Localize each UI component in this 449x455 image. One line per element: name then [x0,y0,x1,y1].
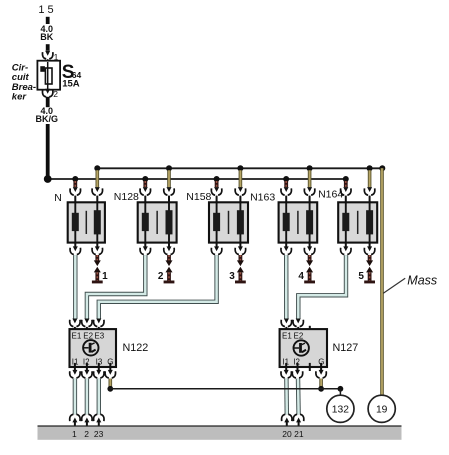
connector N122 G [105,370,115,378]
N127 pin labels I1 I2 G [282,357,324,366]
wire: bus to N pin left [73,181,77,187]
svg-text:2: 2 [158,271,164,282]
thermal element blob of S64 [40,66,45,72]
svg-text:21: 21 [294,429,304,439]
connector at N bottom-right pin [92,243,102,255]
wire: drop to terminal 132 [339,389,341,395]
output stage N122 box [70,329,117,367]
connector at N163 top-left pin [281,187,291,202]
N163 secondary winding [306,202,313,242]
bar pin label 20 [282,429,292,439]
connector at bar pin 1 [70,414,80,426]
connector N127 I1 [281,370,291,378]
connector at N164 top-right pin [364,187,374,202]
output stage N127 box [280,329,327,367]
junction on upper bus (mass branch) [379,165,385,171]
svg-text:1: 1 [102,271,108,282]
junction on lower bus at N158 [214,176,220,182]
ignition coil designator N [54,192,62,204]
svg-text:N128: N128 [114,191,139,203]
svg-text:1: 1 [72,429,77,439]
connector at N164 bottom-right pin [364,243,374,255]
svg-text:N164: N164 [318,188,343,200]
svg-text:23: 23 [94,429,104,439]
N127 electronics symbol [294,340,309,355]
ignition coil N box [68,202,105,242]
wire label 4.0 BK/G [36,106,59,124]
connector at N top-left pin [70,187,80,202]
svg-text:ker: ker [12,91,28,102]
bar pin label 2 [84,429,89,439]
connector at N164 bottom-left pin [341,243,351,255]
junction on upper bus at N163 [307,165,313,171]
svg-text:Mass: Mass [407,273,437,287]
connector at N128 top-right pin [164,187,174,202]
connector N127 E2 [293,319,303,334]
junction N127 G [318,386,324,392]
wire: bus to N158 pin left [215,181,219,187]
svg-text:N122: N122 [123,342,149,354]
ignition coil designator N163 [250,192,275,204]
Circuit Breaker caption [12,63,36,103]
connector at bar pin 20 [282,414,292,426]
N primary winding [72,202,79,242]
junction on upper bus at N128 [166,165,172,171]
wire: N128 high-tension lead [164,255,175,283]
wire: bus to N164 pin right [368,170,372,187]
wire: N127 I2 to bar pin 21 [296,379,301,415]
N127 unused top pin [309,326,311,334]
connector N122 E1 [70,319,80,334]
cylinder number 2 [158,271,164,282]
N secondary winding [94,202,101,242]
N158 core [228,211,230,234]
wire: N122 G lead [109,379,113,389]
N127 pin labels E1 E2 [282,332,304,341]
connector N127 I2 [292,370,302,378]
fuse element of S64 [45,62,52,89]
N158 primary winding [213,202,220,242]
connector N122 E2 [82,319,92,334]
junction on lower bus at N163 [283,176,289,182]
cylinder number 4 [298,271,304,282]
svg-text:E2: E2 [294,332,304,341]
wire: bus to N158 pin right [239,170,243,187]
N163 core [297,211,299,234]
ground/connection bar [38,426,402,440]
wire: coil N164 to N127 E2 [298,255,346,319]
svg-text:2: 2 [53,89,58,99]
wire: coil N158 to N122 E3 [99,255,217,319]
wire: bus to N164 pin left [344,181,348,187]
Mass label [407,273,437,287]
junction on upper bus at N [94,165,100,171]
svg-text:15A: 15A [62,78,80,89]
output stage designator N127 [333,342,359,354]
N128 secondary winding [166,202,173,242]
junction above terminal 132 [338,386,344,392]
N122 bottom pin stubs [75,363,110,371]
connector at N164 top-left pin [341,187,351,202]
svg-text:132: 132 [332,405,349,416]
wire: coil N to N122 E1 [73,255,77,319]
N163 primary winding [283,202,290,242]
ignition coil designator N128 [114,191,139,203]
wire: bus to N pin right [96,170,100,187]
svg-text:N163: N163 [250,192,275,204]
wire: coil N163 to N127 E1 [284,255,288,319]
connector at N158 top-right pin [235,187,245,202]
N164 secondary winding [366,202,373,242]
N128 primary winding [142,202,149,242]
svg-text:19: 19 [376,405,388,416]
junction on upper bus at N158 [237,165,243,171]
bar pin label 1 [72,429,77,439]
terminal 132 circle [327,395,354,422]
ignition coil designator N164 [318,188,343,200]
pin 1 label [54,52,59,62]
wire: breaker output [46,97,50,107]
pin 2 label [53,89,58,99]
N127 bottom pin stubs [286,363,321,371]
ignition coil N164 box [338,202,377,242]
N core [85,211,87,234]
svg-text:5: 5 [358,271,364,282]
N164 core [357,211,359,234]
junction on lower bus at N164 [343,176,349,182]
wire: bus to N163 pin left [284,181,288,187]
connector N122 I3 [94,370,104,378]
connector N127 E1 [281,319,291,334]
connector at N158 bottom-right pin [235,243,245,255]
wire: ground (Mass) run [380,168,384,395]
S64 designator [62,62,82,89]
N122 electronics symbol [83,340,98,355]
N122 pin labels I1 I2 I3 G [72,357,114,366]
svg-text:BK/G: BK/G [36,114,59,124]
wire: N122 I2 to bar pin 2 [85,379,89,415]
connector N122 I2 [82,370,92,378]
cylinder number 3 [229,271,235,282]
svg-text:4: 4 [298,271,304,282]
svg-text:15: 15 [38,4,56,16]
wire: supply down to bus [46,124,50,179]
junction on lower bus at N128 [142,176,148,182]
wire: N127 I1 to bar pin 20 [284,379,289,415]
connector at N163 bottom-right pin [304,243,314,255]
junction N122 G [107,386,113,392]
connector at N128 bottom-right pin [164,243,174,255]
N128 core [156,211,158,234]
N164 primary winding [342,202,349,242]
connector at N158 bottom-left pin [211,243,221,255]
connector N122 I1 [70,370,80,378]
pin 1 connector of S64 [42,51,52,67]
wire: upper bus [97,167,382,169]
circuit breaker S64 box [37,61,60,90]
svg-text:E1: E1 [282,332,292,341]
ignition coil N158 box [209,202,248,242]
N122 pin labels E1 E2 E3 [72,332,105,341]
connector at N163 top-right pin [304,187,314,202]
connector at N128 bottom-left pin [140,243,150,255]
wire: bus to N128 pin right [167,170,171,187]
wire: coil N128 to N122 E2 [87,255,145,319]
svg-text:E1: E1 [72,332,82,341]
ignition coil N163 box [279,202,318,242]
wire: N158 high-tension lead [235,255,246,283]
cylinder number 5 [358,271,364,282]
terminal 19 circle [368,395,395,422]
svg-text:2: 2 [84,429,89,439]
junction on lower bus at N [72,176,78,182]
wire: G net to terminal 132 [110,388,340,390]
wire: N high-tension lead [92,255,103,283]
wire: N122 I1 to bar pin 1 [73,379,77,415]
wire: bus to N163 pin right [308,170,312,187]
wire: terminal 15 stub [46,17,50,24]
connector at bar pin 2 [82,414,92,426]
connector N127 G [316,370,326,378]
connector at N bottom-left pin [70,243,80,255]
N158 secondary winding [237,202,244,242]
svg-text:E3: E3 [94,332,104,341]
connector at N163 bottom-left pin [281,243,291,255]
connector at N top-right pin [92,187,102,202]
bar pin label 21 [294,429,304,439]
wire: supply into breaker [46,44,50,50]
connector at bar pin 21 [293,414,303,426]
pin 2 connector of S64 [42,89,52,97]
output stage designator N122 [123,342,149,354]
Mass callout line [383,278,405,293]
wire: N164 high-tension lead [364,255,375,283]
svg-text:BK: BK [40,32,53,42]
junction on upper bus at N164 [367,165,373,171]
svg-text:N158: N158 [186,191,211,203]
wire label 4.0 BK [40,24,53,42]
svg-text:3: 3 [229,271,235,282]
wire: N163 high-tension lead [304,255,315,283]
connector at bar pin 23 [94,414,104,426]
junction: supply feed [44,175,52,183]
ignition coil designator N158 [186,191,211,203]
cylinder number 1 [102,271,108,282]
svg-text:N: N [54,192,62,204]
ignition coil N128 box [138,202,177,242]
wire: N122 I3 to bar pin 23 [97,379,101,415]
connector at N128 top-left pin [140,187,150,202]
svg-text:N127: N127 [333,342,359,354]
terminal 15 label [38,4,56,16]
svg-text:20: 20 [282,429,292,439]
wire: N127 G lead [319,379,323,389]
connector N122 E3 [94,319,104,334]
connector at N158 top-left pin [211,187,221,202]
wire: lower supply bus [46,178,346,180]
bar pin label 23 [94,429,104,439]
wire: bus to N128 pin left [143,181,147,187]
